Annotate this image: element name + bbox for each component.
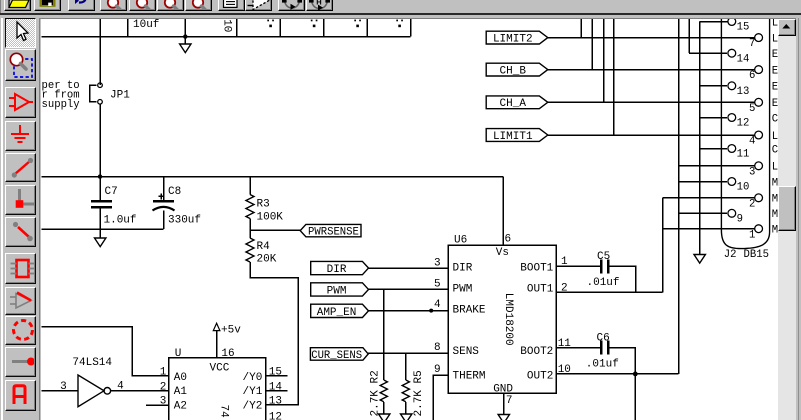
svg-text:2.7K R2: 2.7K R2 xyxy=(370,370,382,416)
capacitor C6 plates xyxy=(600,341,602,355)
wire U6 OUT2 right xyxy=(556,373,679,375)
tool button: gate with wire xyxy=(5,287,36,315)
svg-text:C6: C6 xyxy=(597,333,610,345)
svg-text:6: 6 xyxy=(505,234,512,246)
svg-text:LIMIT2: LIMIT2 xyxy=(493,34,533,46)
capacitor C8 lead top xyxy=(163,177,165,200)
svg-text:14: 14 xyxy=(269,381,283,393)
canvas top border xyxy=(40,18,796,19)
wire DB15 pin15 stub xyxy=(700,21,729,23)
capacitor C8 curved plate xyxy=(153,207,175,211)
tool button: probe/dot line xyxy=(5,347,36,377)
wire CH_A to DB15 pin5 xyxy=(548,101,755,103)
svg-text:LIMIT1: LIMIT1 xyxy=(493,131,533,143)
cut-off capacitor symbols (dots) xyxy=(267,20,269,22)
wire DB15 pin14 stub xyxy=(689,52,727,54)
svg-text:2.7K R5: 2.7K R5 xyxy=(413,370,425,416)
wire CH_B stub up xyxy=(591,19,593,70)
wire top rail xyxy=(41,36,410,38)
connector J2 pin 5 circle xyxy=(755,98,763,106)
+5v power symbol xyxy=(213,323,220,330)
svg-text:PWRSENSE: PWRSENSE xyxy=(308,227,359,239)
wire C5 to OUT1 net xyxy=(610,266,636,292)
wire inverter output to A1 xyxy=(111,390,169,392)
connector J2 pin 4 circle xyxy=(755,131,763,139)
svg-text:74LS14: 74LS14 xyxy=(72,357,112,369)
svg-text:10uf: 10uf xyxy=(133,19,159,31)
wire LIMIT2 to DB15 pin7 xyxy=(548,37,755,39)
wire U6 pin9 THERM left and down xyxy=(433,375,448,420)
svg-text:13: 13 xyxy=(269,395,282,407)
svg-text:20K: 20K xyxy=(257,253,277,265)
toolbar button: document/netlist xyxy=(218,0,245,11)
wire stub above rail x=236.7 xyxy=(236,19,238,37)
tool button: pointer (pressed) xyxy=(5,18,36,48)
tool button: op-amp part xyxy=(5,87,36,118)
capacitor C7 plates xyxy=(91,200,112,203)
wire DB15 pin1 xyxy=(663,228,755,230)
IC U6 body xyxy=(448,245,556,393)
resistor R5 xyxy=(402,380,409,402)
net flag CUR_SENS xyxy=(310,348,368,361)
wire U6 BOOT1 to C5 xyxy=(556,265,600,267)
svg-text:supply: supply xyxy=(42,99,80,111)
wire A2 stub xyxy=(146,404,169,406)
capacitor C8 top plate xyxy=(153,200,174,203)
svg-text:SENS: SENS xyxy=(453,346,480,358)
wire R2 to ground xyxy=(383,402,385,414)
ground below bottom rail xyxy=(99,229,101,238)
net flag AMP_EN xyxy=(311,304,369,317)
svg-text:3: 3 xyxy=(60,381,67,393)
connector J2 DB15 outline xyxy=(721,19,769,249)
net flag CH_B xyxy=(486,63,548,76)
wire inverter input xyxy=(41,390,78,392)
wire /Y1 stub xyxy=(266,390,288,392)
svg-text:4: 4 xyxy=(749,136,755,148)
svg-text:1.0uf: 1.0uf xyxy=(104,214,137,226)
svg-text:12: 12 xyxy=(737,118,750,130)
svg-text:.01uf: .01uf xyxy=(586,359,619,371)
gate 74LS14 inverter triangle xyxy=(78,375,104,407)
wire CUR_SENS to U6 pin8 (SENS) xyxy=(368,352,448,354)
ground below top rail xyxy=(184,37,186,44)
resistor R4 xyxy=(246,238,254,262)
svg-text:7: 7 xyxy=(749,38,755,50)
net flag PWM xyxy=(311,283,369,296)
toolbar button: bus route xyxy=(306,0,333,11)
wire DIR to U6 pin3 xyxy=(369,267,449,269)
wire DB15 pin3 xyxy=(679,165,755,167)
wire from OUT2 junction down off-screen xyxy=(634,374,636,420)
svg-text:DB15: DB15 xyxy=(744,249,769,261)
svg-text:/Y2: /Y2 xyxy=(243,400,263,412)
capacitor C5 plates xyxy=(600,260,602,274)
svg-text:DIR: DIR xyxy=(453,263,473,275)
connector J2 pin 9 circle xyxy=(728,209,736,217)
svg-text:C7: C7 xyxy=(105,186,118,198)
tool button: circle xyxy=(5,316,36,345)
svg-text:VCC: VCC xyxy=(210,363,230,375)
svg-text:A2: A2 xyxy=(174,400,187,412)
wire bus x=689 to pin14 xyxy=(688,19,690,53)
scrollbar up arrow button xyxy=(778,19,796,36)
svg-text:2: 2 xyxy=(561,282,568,294)
wire net to A0 run xyxy=(41,327,169,376)
inverter bubble xyxy=(104,388,111,395)
svg-text:U: U xyxy=(175,348,182,360)
svg-text:10: 10 xyxy=(737,182,750,194)
toolbar left grip edge xyxy=(0,0,1,14)
net flag DIR xyxy=(311,261,369,274)
wire /Y0 stub xyxy=(266,375,288,377)
svg-text:5: 5 xyxy=(749,103,755,115)
ground below U6 pin7 xyxy=(498,415,509,420)
svg-text:5: 5 xyxy=(434,279,441,291)
connector J2 pin 2 circle xyxy=(755,194,763,202)
jumper JP1 pin circle bottom xyxy=(98,100,103,105)
toolbar button: wire route xyxy=(278,0,305,11)
svg-text:+5v: +5v xyxy=(221,325,241,337)
wire stub above rail x=323.8 xyxy=(323,19,325,37)
svg-text:4: 4 xyxy=(434,299,441,311)
svg-text:J2: J2 xyxy=(724,249,737,261)
svg-text:R4: R4 xyxy=(257,241,271,253)
svg-text:PWM: PWM xyxy=(327,285,347,297)
connector J2 pin 6 circle xyxy=(755,66,763,74)
svg-text:JP1: JP1 xyxy=(110,90,130,102)
wire AMP_EN to U6 pin4 (BRAKE) xyxy=(369,310,449,312)
svg-text:CH_B: CH_B xyxy=(500,66,527,78)
svg-text:C5: C5 xyxy=(597,251,610,263)
wire stub above rail x=367.3 xyxy=(366,19,368,37)
tool button: text A xyxy=(5,380,36,411)
svg-text:100K: 100K xyxy=(257,212,284,224)
svg-text:AMP_EN: AMP_EN xyxy=(317,307,357,319)
scrollbar thumb xyxy=(778,186,796,231)
wire U6 OUT1 right xyxy=(556,291,663,293)
right window frame xyxy=(796,18,801,420)
wire OUT2 up bus xyxy=(678,19,680,374)
svg-text:12: 12 xyxy=(269,412,282,420)
svg-text:1: 1 xyxy=(160,366,167,378)
resistor R3 xyxy=(246,195,254,219)
capacitor C7 lead bottom xyxy=(99,209,101,230)
svg-text:PWM: PWM xyxy=(453,284,473,296)
wire DB15 pin12 stub xyxy=(700,117,728,119)
svg-text:DIR: DIR xyxy=(327,264,347,276)
svg-text:3: 3 xyxy=(749,166,755,178)
toolbar bottom shadow line xyxy=(0,13,801,15)
svg-text:13: 13 xyxy=(737,86,750,98)
connector J2 pin 1 circle xyxy=(755,225,763,233)
svg-text:1: 1 xyxy=(749,229,755,241)
wire C6 to OUT2 net xyxy=(610,348,636,374)
wire PWM to U6 pin5 xyxy=(369,288,449,290)
connector J2 pin 12 circle xyxy=(728,114,736,122)
svg-text:THERM: THERM xyxy=(453,370,486,382)
svg-text:14: 14 xyxy=(737,53,750,65)
wire R3 to R4 node xyxy=(249,219,251,239)
svg-text:3: 3 xyxy=(434,257,441,269)
svg-text:1: 1 xyxy=(561,256,568,268)
svg-text:4: 4 xyxy=(117,380,124,392)
wire CH_B to DB15 pin6 xyxy=(548,69,755,71)
wire mid rail xyxy=(41,176,503,178)
connector J2 pin 14 circle xyxy=(728,49,736,57)
wire SENS tee down to R5 xyxy=(405,353,407,380)
tool button: IC part xyxy=(5,253,36,284)
wire JP1 bottom to mid rail xyxy=(99,104,101,177)
svg-text:R3: R3 xyxy=(257,199,270,211)
svg-text:15: 15 xyxy=(269,366,282,378)
wire LIMIT1 stub up xyxy=(613,19,615,135)
connector J2 pin 7 circle xyxy=(755,34,763,42)
jumper JP1 pin circle top xyxy=(98,83,103,88)
wire DB15 pin11 stub xyxy=(700,148,728,150)
ground below R2 xyxy=(379,414,390,420)
svg-text:10: 10 xyxy=(558,364,571,376)
svg-text:BRAKE: BRAKE xyxy=(453,304,486,316)
svg-text:/Y1: /Y1 xyxy=(243,386,263,398)
svg-text:11: 11 xyxy=(737,149,750,161)
wire Vs pin6 from mid rail xyxy=(502,177,504,245)
wire stub above rail x=410.5 xyxy=(410,19,412,37)
connector J2 pin 11 circle xyxy=(728,145,736,153)
svg-text:7: 7 xyxy=(506,395,513,407)
junction on BRAKE wire xyxy=(429,309,433,313)
net flag LIMIT2 xyxy=(486,31,548,44)
IC U 74xx body xyxy=(169,358,266,420)
wire stub above rail x=127.6 xyxy=(127,19,129,37)
svg-text:9: 9 xyxy=(434,364,441,376)
svg-text:Vs: Vs xyxy=(496,247,509,259)
tool button: ground symbol xyxy=(5,121,36,151)
wire OUT1 up to DB15 pins xyxy=(662,198,664,292)
toolbar button: open file xyxy=(4,0,31,11)
toolbar button: undo (blue arrow) xyxy=(68,0,95,11)
ground below R5 xyxy=(401,414,412,420)
jumper JP1 bracket xyxy=(90,85,97,102)
svg-text:OUT1: OUT1 xyxy=(527,284,554,296)
resistor R2 xyxy=(380,380,387,402)
wire stub above rail x=280.2 xyxy=(279,19,281,37)
toolbar button: place gate xyxy=(245,0,272,11)
connector J2 pin 13 circle xyxy=(728,82,736,90)
wire bottom rail xyxy=(41,228,163,230)
wire vertical x=100 from top through JP1 area xyxy=(99,19,101,85)
net flag PWRSENSE xyxy=(300,224,361,236)
svg-text:330uf: 330uf xyxy=(168,214,201,226)
wire U6 BOOT2 to C6 xyxy=(556,347,600,349)
svg-text:BOOT2: BOOT2 xyxy=(520,346,553,358)
wire bus x=699.5 pins 15/13/12/11 xyxy=(699,22,701,255)
svg-text:CUR_SENS: CUR_SENS xyxy=(311,350,362,362)
svg-text:16: 16 xyxy=(221,348,234,360)
connector J2 pin 15 circle xyxy=(728,18,736,26)
net flag LIMIT1 xyxy=(486,129,548,142)
capacitor C7 lead top xyxy=(99,177,101,200)
svg-text:BOOT1: BOOT1 xyxy=(520,263,553,275)
ground below DB15 bus xyxy=(694,255,705,264)
capacitor C8 plus mark xyxy=(158,195,164,197)
svg-text:C8: C8 xyxy=(168,186,181,198)
connector J2 pin 10 circle xyxy=(728,178,736,186)
svg-text:A1: A1 xyxy=(174,386,188,398)
svg-text:U6: U6 xyxy=(454,235,467,247)
junction OUT2 and C6 branch xyxy=(633,372,638,377)
toolbar button: save xyxy=(34,0,61,11)
svg-text:9: 9 xyxy=(737,214,743,226)
svg-text:11: 11 xyxy=(558,338,572,350)
wire PWM junction down to R2 xyxy=(383,289,385,380)
tool button: zoom select xyxy=(5,49,36,81)
svg-text:.01uf: .01uf xyxy=(587,277,620,289)
svg-text:2: 2 xyxy=(749,198,755,210)
wire LIMIT2 stub up xyxy=(580,19,582,38)
svg-text:8: 8 xyxy=(434,342,441,354)
resistor R3 lead top xyxy=(249,177,251,195)
svg-text:74: 74 xyxy=(218,405,230,419)
capacitor C8 lead bottom xyxy=(163,211,165,230)
wire stub above rail x=185.3 xyxy=(184,19,186,37)
svg-text:LMD18200: LMD18200 xyxy=(502,293,514,346)
svg-text:15: 15 xyxy=(737,22,750,34)
net flag CH_A xyxy=(486,96,548,109)
svg-text:A0: A0 xyxy=(174,372,187,384)
wire U6 pin7 GND down xyxy=(503,393,505,415)
wire CH_A stub up xyxy=(603,19,605,102)
tool button: net (disabled wire) xyxy=(5,217,36,247)
wire DB15 pin2 xyxy=(663,197,755,199)
tool button: wire xyxy=(5,153,36,182)
junction mid rail x=100 xyxy=(98,174,102,178)
svg-text:/Y0: /Y0 xyxy=(243,372,263,384)
svg-text:CH_A: CH_A xyxy=(500,98,527,110)
svg-text:10: 10 xyxy=(221,19,233,32)
junction at rail and x=185.3 xyxy=(183,34,187,38)
connector J2 pin 3 circle xyxy=(755,162,763,170)
toolbar buttons: zoom x4 xyxy=(100,0,127,11)
wire LIMIT1 to DB15 pin4 xyxy=(548,134,755,136)
wire node to PWRSENSE xyxy=(250,229,306,231)
svg-text:6: 6 xyxy=(749,70,755,82)
svg-text:OUT2: OUT2 xyxy=(527,370,553,382)
wire DB15 pin13 stub xyxy=(700,85,728,87)
tool button: orthogonal wire xyxy=(5,185,36,215)
wire R5 to ground xyxy=(405,402,407,414)
wire DB15 pin9 stub xyxy=(679,212,728,214)
wire DB15 pin10 stub xyxy=(679,181,728,183)
svg-text:2: 2 xyxy=(160,381,167,393)
wire R4 bottom run to /Y2 xyxy=(250,262,298,405)
